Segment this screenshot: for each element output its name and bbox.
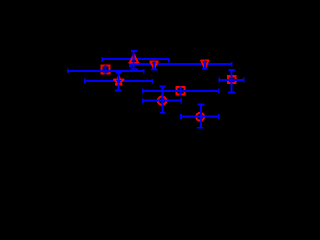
wire W1 (net N1 through buffer A1) <box>102 57 169 62</box>
box S2 (square component on net N5) <box>176 86 186 96</box>
wire W2 (net N2 through inverters D1 and D2) <box>130 62 232 67</box>
pin V6 (vertical pin of inverter D1) <box>151 62 158 70</box>
pin V4 (vertical pin of circle C2) <box>197 105 205 128</box>
box S3 (square component on net N8) <box>227 75 237 84</box>
pin V9 (inner vertical bar of box S1) <box>105 65 107 75</box>
inverter D2 (down-pointing triangle symbol) <box>200 60 209 68</box>
wire W3 (net N3 through box S1) <box>68 69 144 74</box>
box S1 (square component on net N3) <box>101 65 111 75</box>
wire W5 (net N5 through box S2) <box>143 89 219 94</box>
buffer A1 (up-pointing triangle symbol) <box>129 54 139 63</box>
pin V5 (vertical pin of box S3) <box>228 70 235 93</box>
pin V3 (vertical pin of circle C1) <box>160 87 166 113</box>
pin V2 (vertical pin of star X1, junction with wire W3) <box>115 71 121 90</box>
inverter D1 (down-pointing triangle symbol) <box>150 62 159 69</box>
wire W6 (net N6 through circle C1) <box>143 98 182 103</box>
pin V8 (vertical pin of box S2 down to end of wire W6) <box>180 87 182 96</box>
pin V1 (vertical pin of buffer A1) <box>130 51 138 69</box>
star X1 (five-pointed star component on net N4) <box>114 76 125 86</box>
wire W7 (net N7 through circle C2) <box>181 114 219 119</box>
wire W8 (net N8 through box S3) <box>219 77 243 82</box>
pin V7 (vertical pin of inverter D2) <box>202 61 208 69</box>
circle C2 (round component on net N7) <box>195 112 205 122</box>
circle C1 (round component on net N6) <box>157 96 167 106</box>
wire W4 (net N4 through star X1) <box>85 79 153 84</box>
